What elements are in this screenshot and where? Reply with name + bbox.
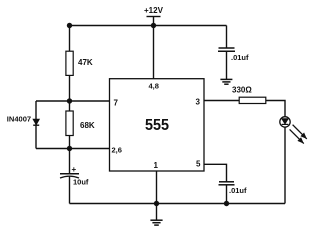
wire resistor to LED corner [266, 101, 285, 117]
resistor 68K [66, 111, 95, 136]
wire +12V rail to top capacitor [226, 26, 228, 48]
node junction +12V [151, 23, 156, 28]
wire from +12V junction down to IC pin 4,8 [153, 26, 155, 80]
wire IC pin 5 to bottom capacitor [204, 164, 227, 181]
svg-text:3: 3 [196, 98, 201, 107]
wire pin 7 horizontal [36, 100, 110, 102]
wire IC pin 1 to ground rail [156, 171, 158, 204]
ground (top right) [220, 79, 232, 84]
svg-text:47K: 47K [78, 58, 93, 67]
svg-text:5: 5 [196, 160, 201, 169]
wire LED to ground rail [284, 127, 286, 203]
svg-text:2,6: 2,6 [112, 146, 122, 155]
capacitor C .01uf (top right) [218, 48, 249, 79]
node junction pin1/ground [154, 201, 159, 206]
wire IC pin 3 to resistor [204, 100, 239, 102]
svg-text:1: 1 [154, 161, 159, 170]
wire diode branch vertical [35, 101, 37, 149]
power +12V [144, 6, 164, 26]
node junction top-left [67, 23, 72, 28]
svg-text:4,8: 4,8 [149, 82, 159, 91]
ground (bottom center) [150, 204, 162, 226]
wire pin 2,6 horizontal [36, 148, 110, 150]
svg-text:68K: 68K [80, 121, 95, 130]
diode IN4007 [7, 117, 39, 126]
svg-text:.01uf: .01uf [229, 186, 247, 195]
IC U1 555 [110, 79, 205, 171]
svg-text:+12V: +12V [144, 6, 164, 15]
node junction bottom cap/ground rail [224, 201, 229, 206]
svg-text:330Ω: 330Ω [232, 86, 252, 95]
LED D1 [280, 117, 307, 144]
capacitor 10uf (electrolytic) [60, 149, 89, 204]
wire left branch vertical (through 47K and 68K) [69, 26, 71, 149]
svg-text:.01uf: .01uf [231, 53, 249, 62]
svg-text:IN4007: IN4007 [7, 117, 31, 124]
wire +12V top rail [70, 25, 227, 27]
node junction pin7/47K/68K/diode [67, 98, 72, 103]
resistor 330Ω [232, 86, 266, 104]
svg-text:7: 7 [114, 99, 119, 108]
svg-text:555: 555 [145, 117, 169, 134]
svg-text:+: + [72, 165, 77, 174]
wire ground bottom rail [70, 203, 286, 205]
node junction pin2,6/68K/10uf [67, 146, 72, 151]
capacitor C .01uf (bottom right) [219, 182, 248, 204]
resistor 47K [66, 51, 93, 75]
svg-text:10uf: 10uf [73, 177, 89, 186]
